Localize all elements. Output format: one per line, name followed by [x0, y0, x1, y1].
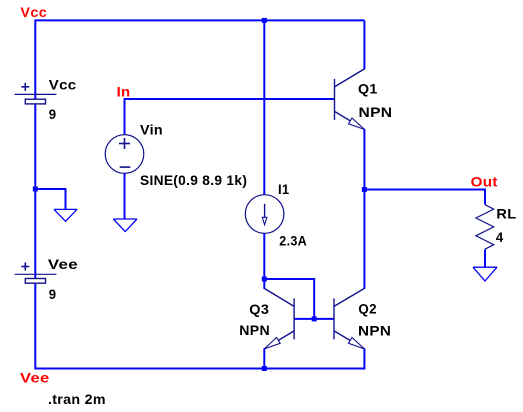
- voltage source V1 (Vcc battery): [15, 83, 57, 104]
- ground symbol RL: [473, 267, 497, 281]
- node junction Q3 emitter / bottom rail: [262, 366, 267, 371]
- svg-text:RL: RL: [496, 206, 516, 222]
- svg-text:9: 9: [49, 286, 57, 302]
- resistor RL: [476, 205, 494, 250]
- svg-text:Vcc: Vcc: [49, 76, 77, 92]
- svg-text:Q2: Q2: [358, 301, 376, 317]
- svg-text:2.3A: 2.3A: [279, 232, 307, 248]
- transistor Q2 (NPN): [334, 288, 364, 349]
- wire Q2 collector to Out node: [363, 190, 365, 289]
- current source I1: [245, 195, 284, 234]
- wire Q1 collector stub to top rail: [363, 20, 365, 69]
- wire V1 bottom to Vee battery: [34, 105, 36, 279]
- wire V2 bottom to bottom rail: [34, 284, 36, 370]
- svg-text:Out: Out: [471, 173, 498, 189]
- svg-text:Vcc: Vcc: [20, 4, 47, 20]
- wire base Q3-Q2: [294, 318, 334, 320]
- svg-text:Vin: Vin: [140, 122, 163, 138]
- svg-text:NPN: NPN: [239, 322, 270, 338]
- wire Vin bottom to ground: [124, 173, 126, 219]
- node junction top rail / I1: [262, 18, 267, 23]
- voltage source V2 (Vee battery): [15, 263, 57, 284]
- svg-text:NPN: NPN: [358, 323, 391, 339]
- node junction Out: [362, 187, 367, 192]
- node junction base node: [312, 316, 317, 321]
- transistor Q1 (NPN): [335, 69, 365, 129]
- wire RL bottom to ground: [484, 250, 486, 268]
- wire Q3 collector stub: [263, 279, 265, 289]
- svg-text:Q3: Q3: [249, 301, 269, 317]
- wire Out horizontal: [364, 190, 485, 205]
- wire top rail Vcc: [35, 19, 364, 21]
- voltage source Vin circle: [105, 135, 144, 174]
- wire Q3 emitter to bottom rail: [263, 348, 265, 368]
- wire In drop to Vin: [124, 98, 126, 135]
- svg-text:4: 4: [496, 229, 504, 245]
- transistor Q3 (mirrored NPN): [264, 288, 294, 349]
- svg-text:SINE(0.9 8.9 1k): SINE(0.9 8.9 1k): [140, 172, 247, 188]
- svg-text:.tran 2m: .tran 2m: [48, 391, 106, 407]
- wire gnd tap: [35, 189, 65, 209]
- wire Q1 emitter to Out node: [363, 129, 365, 190]
- wire I1 bottom to mirror node: [263, 233, 265, 279]
- svg-text:9: 9: [49, 106, 57, 122]
- wire left drop to V1: [34, 19, 36, 100]
- svg-text:In: In: [117, 83, 131, 99]
- wire Q2 emitter to bottom rail: [363, 348, 365, 369]
- svg-text:Vee: Vee: [48, 256, 78, 272]
- svg-text:Vee: Vee: [20, 370, 50, 386]
- ground symbol left: [54, 209, 77, 221]
- node junction left gnd tap: [33, 187, 38, 192]
- node junction I1 / Q3 collector: [262, 277, 267, 282]
- wire mirror node to base column: [264, 279, 314, 319]
- wire In horizontal: [125, 98, 335, 100]
- ground symbol Vin: [113, 219, 137, 232]
- wire bottom rail Vee: [35, 368, 365, 370]
- svg-text:Q1: Q1: [358, 80, 378, 96]
- svg-text:I1: I1: [278, 181, 290, 197]
- svg-text:NPN: NPN: [359, 104, 393, 120]
- wire I1 drop from top rail: [263, 20, 265, 194]
